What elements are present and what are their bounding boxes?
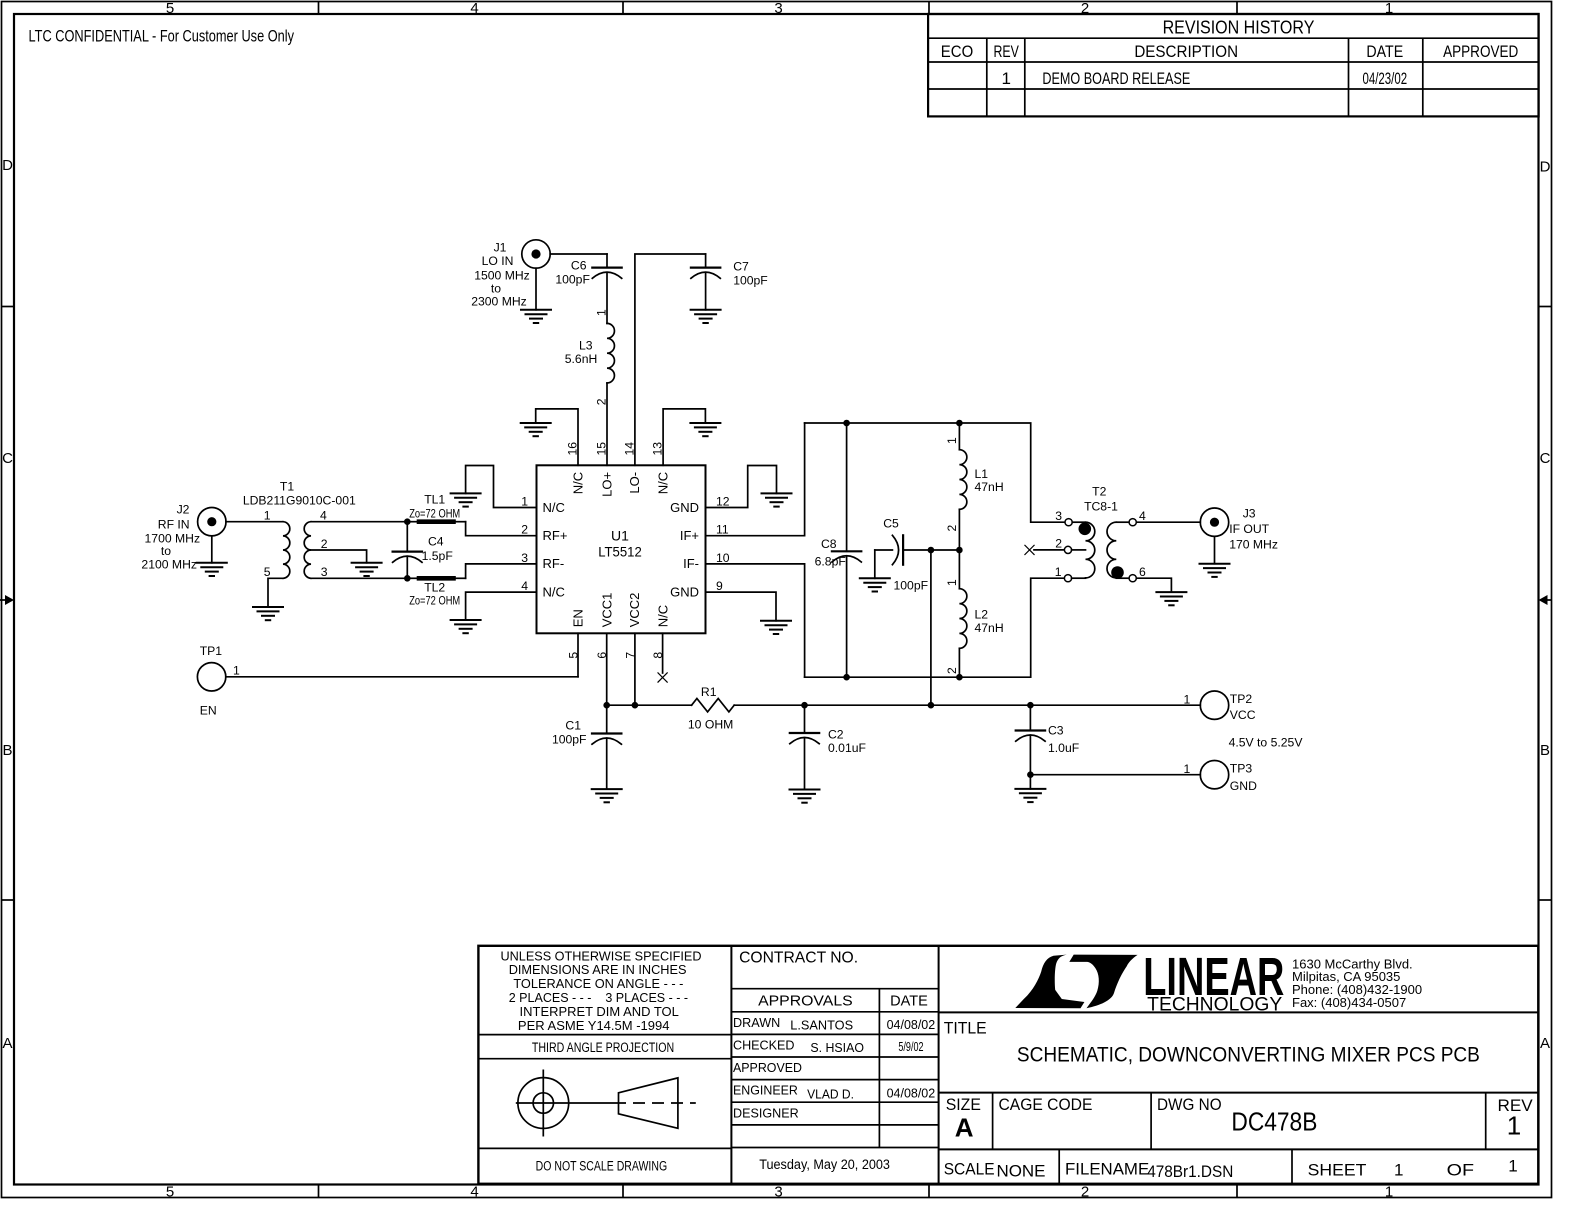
test point TP1 (197, 663, 225, 691)
svg-text:1: 1 (521, 495, 528, 509)
svg-text:0.01uF: 0.01uF (828, 741, 866, 755)
L1 value labels (975, 467, 1004, 494)
wire J1 stem to ground (535, 268, 537, 310)
node C8 top (843, 420, 850, 427)
svg-text:U1: U1 (611, 527, 629, 543)
svg-text:to: to (161, 544, 171, 558)
T2 phase dot top (1079, 523, 1092, 536)
svg-text:4.5V to 5.25V: 4.5V to 5.25V (1229, 736, 1304, 750)
svg-text:J1: J1 (494, 241, 507, 255)
transformer T1 primary winding (283, 522, 290, 579)
capacitor C3 (1016, 705, 1045, 789)
svg-text:1: 1 (595, 309, 609, 316)
svg-text:3: 3 (774, 1184, 782, 1201)
svg-text:1: 1 (1508, 1157, 1517, 1176)
svg-text:DIMENSIONS ARE IN INCHES: DIMENSIONS ARE IN INCHES (509, 962, 687, 977)
svg-text:2 PLACES - - - 3 PLACES - -: 2 PLACES - - - 3 PLACES - - - (509, 990, 688, 1005)
svg-text:2: 2 (945, 667, 959, 674)
svg-text:T2: T2 (1092, 484, 1106, 498)
svg-text:ECO: ECO (941, 42, 973, 61)
svg-text:L3: L3 (579, 338, 593, 352)
TP2 labels (1184, 692, 1256, 722)
svg-text:FILENAME: FILENAME (1065, 1160, 1149, 1179)
svg-text:RF-: RF- (543, 556, 565, 571)
wire TL2 to pin 3 step (466, 564, 537, 578)
svg-text:04/08/02: 04/08/02 (887, 1018, 936, 1032)
svg-text:6.8pF: 6.8pF (815, 555, 846, 569)
pin 7 stub (634, 633, 636, 705)
ground pin 12 (762, 493, 792, 506)
svg-text:C: C (1540, 450, 1551, 467)
pin 13 ground wire (663, 409, 705, 465)
svg-text:1.5pF: 1.5pF (422, 549, 453, 563)
svg-text:6: 6 (1139, 565, 1146, 579)
svg-text:GND: GND (670, 584, 699, 599)
wire IF+ pin 11 riser (706, 423, 805, 536)
T1 pin 4 wire (311, 521, 407, 523)
capacitor C6 (592, 254, 621, 278)
svg-text:IF-: IF- (683, 556, 699, 571)
svg-text:1.0uF: 1.0uF (1048, 741, 1079, 755)
U1 left pin numbers (521, 495, 528, 594)
connector J1 LO IN (522, 240, 550, 268)
ground T2 pin 6 (1156, 592, 1186, 605)
C7 value labels (733, 259, 768, 287)
svg-text:APPROVED: APPROVED (1443, 42, 1518, 61)
ground C5 (860, 578, 890, 591)
svg-text:2300 MHz: 2300 MHz (471, 295, 527, 309)
capacitor C8 (832, 423, 861, 677)
svg-text:RF IN: RF IN (158, 518, 190, 532)
C6 value labels (555, 258, 590, 286)
svg-text:A: A (2, 1035, 12, 1052)
capacitor C5 (875, 535, 931, 564)
T2 phase dot bottom (1111, 566, 1124, 579)
ground pin 9 (761, 621, 791, 634)
T1 pin labels (264, 509, 328, 580)
svg-text:A: A (1540, 1035, 1550, 1052)
svg-text:LO+: LO+ (599, 472, 614, 497)
node C5 branch (928, 547, 935, 554)
svg-text:5/9/02: 5/9/02 (898, 1040, 923, 1054)
svg-text:100pF: 100pF (552, 732, 587, 746)
wire LO- pin 14 riser (635, 254, 706, 465)
pin 12 ground wire (706, 466, 777, 508)
SCHEMATIC END (478, 946, 1538, 1184)
svg-text:11: 11 (716, 523, 729, 537)
svg-text:CAGE CODE: CAGE CODE (999, 1095, 1093, 1114)
transformer T1 secondary winding (304, 522, 311, 579)
svg-text:1: 1 (1385, 1184, 1393, 1201)
TP3 labels (1184, 762, 1258, 794)
svg-text:VCC: VCC (1230, 708, 1256, 722)
svg-text:T1: T1 (280, 480, 294, 494)
svg-text:4: 4 (470, 1184, 478, 1201)
T1 labels (243, 480, 356, 508)
svg-text:N/C: N/C (543, 584, 565, 599)
C8 value labels (815, 537, 846, 569)
C3 value labels (1048, 724, 1079, 755)
svg-text:ENGINEER: ENGINEER (733, 1084, 798, 1098)
svg-text:THIRD ANGLE PROJECTION: THIRD ANGLE PROJECTION (532, 1040, 674, 1055)
svg-text:DRAWN: DRAWN (733, 1016, 780, 1030)
C5 ground leg (874, 550, 876, 578)
svg-text:4: 4 (1139, 509, 1146, 523)
svg-text:UNLESS OTHERWISE SPECIFIED: UNLESS OTHERWISE SPECIFIED (501, 948, 702, 963)
svg-text:170 MHz: 170 MHz (1229, 537, 1278, 551)
svg-text:1: 1 (1055, 565, 1062, 579)
pin 5 stub (577, 633, 579, 677)
T1 pin 2 wire to ground (311, 550, 367, 563)
ground pin 13 (690, 423, 720, 436)
wire TL1 to pin 2 step (466, 522, 537, 536)
svg-text:RF+: RF+ (543, 528, 568, 543)
J1 labels (471, 241, 530, 309)
svg-text:LTC CONFIDENTIAL - For Custome: LTC CONFIDENTIAL - For Customer Use Only (29, 27, 295, 46)
svg-text:3: 3 (1055, 509, 1062, 523)
svg-text:N/C: N/C (656, 605, 671, 627)
svg-text:2: 2 (521, 523, 528, 537)
svg-text:APPROVED: APPROVED (733, 1061, 802, 1075)
ground C2 (790, 790, 820, 803)
resistor R1 (692, 699, 735, 712)
svg-text:14: 14 (622, 442, 636, 456)
svg-text:B: B (1540, 742, 1550, 759)
svg-text:S. HSIAO: S. HSIAO (810, 1041, 864, 1055)
wire TP3 GND (1030, 774, 1200, 776)
svg-text:C6: C6 (571, 258, 587, 272)
svg-text:TL2: TL2 (424, 580, 445, 594)
transformer T2 right winding (1107, 522, 1116, 578)
svg-text:SCHEMATIC, DOWNCONVERTING MIXE: SCHEMATIC, DOWNCONVERTING MIXER PCS PCB (1017, 1044, 1480, 1067)
C4 value labels (422, 535, 453, 564)
svg-text:1: 1 (1394, 1160, 1403, 1179)
svg-text:N/C: N/C (543, 500, 565, 515)
node L1 L2 mid (956, 547, 963, 554)
C5 value labels (883, 517, 928, 593)
transformer T2 left winding (1086, 522, 1095, 578)
wire C5 to L junction (931, 549, 960, 551)
svg-text:IF OUT: IF OUT (1229, 522, 1269, 536)
svg-text:OF: OF (1447, 1160, 1474, 1179)
svg-text:PER ASME Y14.5M -1994: PER ASME Y14.5M -1994 (518, 1018, 670, 1033)
node pin 6 C1 (603, 702, 610, 709)
J3 stem to ground (1214, 536, 1216, 563)
svg-text:1: 1 (1001, 69, 1010, 88)
svg-text:4: 4 (470, 0, 478, 17)
U1 right pin names (670, 500, 699, 600)
svg-text:DWG NO: DWG NO (1157, 1095, 1222, 1114)
svg-text:C4: C4 (428, 535, 444, 549)
svg-text:5: 5 (166, 1184, 174, 1201)
U1 left pin names (543, 500, 568, 600)
svg-text:J3: J3 (1243, 507, 1256, 521)
transmission line TL2 (407, 577, 465, 579)
capacitor C4 (393, 522, 422, 579)
svg-text:GND: GND (1230, 779, 1257, 793)
svg-text:4: 4 (320, 509, 327, 523)
svg-text:TC8-1: TC8-1 (1084, 500, 1118, 514)
svg-text:Tuesday, May 20, 2003: Tuesday, May 20, 2003 (759, 1157, 890, 1172)
ground T1 pin 2 (352, 563, 382, 576)
svg-text:2100 MHz: 2100 MHz (141, 558, 197, 572)
svg-text:DESCRIPTION: DESCRIPTION (1134, 42, 1238, 61)
ground pin 1 (451, 493, 481, 506)
C1 value labels (552, 719, 587, 747)
ground J3 (1200, 564, 1230, 577)
svg-text:1700 MHz: 1700 MHz (145, 532, 201, 546)
svg-text:Zo=72 OHM: Zo=72 OHM (409, 509, 460, 521)
svg-text:100pF: 100pF (555, 273, 590, 287)
node L2 bottom (956, 674, 963, 681)
VCC rail left segment (607, 704, 692, 706)
svg-text:VLAD D.: VLAD D. (807, 1088, 854, 1102)
test point TP3 GND (1200, 761, 1228, 789)
svg-text:C7: C7 (733, 259, 749, 273)
svg-text:1: 1 (1507, 1111, 1521, 1141)
node C3 TP3 (1027, 771, 1034, 778)
svg-text:3: 3 (774, 0, 782, 17)
svg-text:D: D (2, 157, 13, 174)
svg-text:R1: R1 (701, 685, 717, 699)
svg-text:TP3: TP3 (1230, 762, 1253, 776)
svg-text:to: to (491, 282, 501, 296)
T2 pin 3 (1055, 509, 1085, 526)
T2 pin 4 (1116, 509, 1200, 526)
ground T1 pin 5 (253, 607, 283, 620)
svg-text:47nH: 47nH (975, 480, 1004, 494)
svg-text:C3: C3 (1048, 724, 1064, 738)
svg-text:12: 12 (716, 495, 730, 509)
svg-text:L.SANTOS: L.SANTOS (790, 1018, 853, 1032)
svg-text:EN: EN (570, 609, 585, 627)
svg-text:10: 10 (716, 551, 730, 565)
svg-text:C2: C2 (828, 728, 844, 742)
wire J2 stem to ground (211, 536, 213, 563)
svg-text:15: 15 (595, 442, 609, 456)
svg-text:J2: J2 (177, 503, 190, 517)
T2 labels (1084, 484, 1118, 513)
TP1 labels (200, 644, 240, 718)
svg-text:VCC1: VCC1 (599, 593, 614, 628)
svg-text:DO NOT SCALE DRAWING: DO NOT SCALE DRAWING (536, 1159, 668, 1174)
svg-text:04/08/02: 04/08/02 (887, 1087, 936, 1101)
U1 top pin numbers (566, 442, 665, 456)
svg-text:A: A (955, 1113, 974, 1143)
svg-text:9: 9 (716, 579, 723, 593)
wire IF top rail (805, 423, 1065, 522)
pin 16 ground wire (536, 409, 578, 465)
svg-text:CHECKED: CHECKED (733, 1039, 795, 1053)
svg-text:SIZE: SIZE (946, 1095, 981, 1114)
svg-text:1500 MHz: 1500 MHz (474, 269, 530, 283)
svg-text:47nH: 47nH (975, 621, 1004, 635)
svg-text:D: D (1540, 159, 1551, 176)
svg-text:CONTRACT NO.: CONTRACT NO. (739, 950, 858, 967)
capacitor C2 (790, 705, 819, 789)
transmission line TL1 (407, 521, 465, 523)
ground under J1 (521, 310, 551, 323)
T2 pin 6 to ground (1116, 565, 1171, 592)
capacitor C1 (592, 705, 621, 789)
address block (1292, 956, 1422, 1010)
connector J2 RF IN (198, 508, 226, 536)
node TL2 junction (404, 575, 411, 582)
svg-text:4: 4 (521, 579, 528, 593)
node L1 top (956, 420, 963, 427)
svg-text:VCC2: VCC2 (627, 593, 642, 628)
third angle projection symbol (516, 1070, 696, 1137)
L2 value labels (975, 608, 1004, 635)
wire C6 to L3 (606, 272, 608, 323)
svg-text:100pF: 100pF (894, 579, 929, 593)
ground pin 4 (451, 620, 481, 633)
VCC rail right segment (734, 704, 1200, 706)
svg-text:C: C (2, 450, 13, 467)
ground under J2 (197, 563, 227, 576)
svg-text:TL1: TL1 (424, 492, 445, 506)
svg-text:16: 16 (566, 442, 580, 456)
svg-text:DATE: DATE (890, 993, 928, 1009)
pin 4 ground wire (466, 592, 537, 620)
wire C5 branch to VCC rail (930, 550, 932, 705)
wire J2 to T1 pin 1 (226, 521, 283, 523)
svg-text:LT5512: LT5512 (598, 544, 642, 560)
node C5 VCC junction (928, 702, 935, 709)
svg-text:EN: EN (200, 703, 217, 717)
svg-text:DC478B: DC478B (1231, 1107, 1317, 1137)
node C2 (801, 702, 808, 709)
svg-text:1: 1 (945, 437, 959, 444)
svg-text:C8: C8 (821, 537, 837, 551)
C2 value labels (828, 728, 866, 755)
svg-text:1: 1 (945, 579, 959, 586)
svg-text:5.6nH: 5.6nH (565, 352, 598, 366)
svg-text:GND: GND (670, 500, 699, 515)
U1 reference labels (598, 527, 642, 559)
svg-text:2: 2 (1081, 1184, 1089, 1201)
svg-text:L1: L1 (975, 467, 989, 481)
svg-text:APPROVALS: APPROVALS (758, 993, 853, 1009)
test point TP2 VCC (1200, 691, 1228, 719)
svg-text:5: 5 (166, 0, 174, 17)
svg-text:DATE: DATE (1366, 42, 1403, 61)
svg-text:TP1: TP1 (200, 644, 223, 658)
svg-text:TITLE: TITLE (944, 1018, 987, 1037)
svg-text:LDB211G9010C-001: LDB211G9010C-001 (243, 494, 356, 508)
svg-text:B: B (2, 742, 12, 759)
svg-text:IF+: IF+ (680, 528, 699, 543)
node C3 top (1027, 702, 1034, 709)
T1 pin 5 wire to ground (268, 578, 283, 607)
pin 1 ground wire (466, 466, 537, 508)
svg-text:10 OHM: 10 OHM (688, 717, 733, 731)
svg-text:SHEET: SHEET (1308, 1160, 1367, 1179)
node TL1 junction (404, 518, 411, 525)
svg-text:LO-: LO- (627, 472, 642, 494)
svg-text:DEMO BOARD RELEASE: DEMO BOARD RELEASE (1042, 69, 1190, 88)
svg-text:2: 2 (1055, 537, 1062, 551)
U1 right pin numbers (716, 495, 730, 594)
wire IF bottom rail (805, 578, 1065, 677)
svg-text:LO IN: LO IN (482, 254, 514, 268)
inductor L2 (959, 550, 966, 677)
ground under C7 (691, 310, 721, 323)
svg-text:2: 2 (945, 525, 959, 532)
svg-text:NONE: NONE (997, 1161, 1046, 1180)
J3 labels (1229, 507, 1278, 552)
wire IF- pin 10 dropper (706, 564, 805, 677)
svg-text:TP2: TP2 (1230, 692, 1253, 706)
REVISION HISTORY TABLE (928, 14, 1539, 116)
U1 bottom pin numbers (567, 652, 666, 659)
node pin 7 (632, 702, 639, 709)
svg-text:13: 13 (651, 442, 665, 456)
pin 6 stub (606, 633, 608, 705)
TL2 labels (409, 580, 460, 607)
svg-text:N/C: N/C (656, 472, 671, 494)
T2 pin 2 no-connect (1025, 537, 1086, 555)
connector J3 IF OUT (1200, 508, 1228, 536)
svg-text:1: 1 (233, 664, 240, 678)
U1 top pin names (570, 472, 670, 497)
R1 labels (688, 685, 733, 731)
op-amp U1 LT5512 body (537, 465, 706, 633)
T1 pin 3 wire (311, 577, 407, 579)
node C8 bottom (843, 674, 850, 681)
ground C3 (1015, 789, 1045, 802)
svg-text:100pF: 100pF (733, 274, 768, 288)
svg-text:C1: C1 (565, 719, 581, 733)
wire J1 to C6 (550, 253, 607, 255)
svg-text:3: 3 (321, 565, 328, 579)
inductor L3 (607, 323, 614, 383)
inductor L1 (959, 423, 966, 550)
svg-text:N/C: N/C (570, 472, 585, 494)
wire L3 to pin 15 (606, 383, 608, 465)
svg-text:C5: C5 (883, 517, 899, 531)
svg-text:1: 1 (1184, 762, 1191, 776)
ground C1 (592, 789, 622, 802)
pin 8 stub no-connect (658, 633, 667, 682)
svg-text:Zo=72 OHM: Zo=72 OHM (409, 596, 460, 608)
svg-text:04/23/02: 04/23/02 (1363, 69, 1408, 88)
svg-text:478Br1.DSN: 478Br1.DSN (1147, 1162, 1233, 1181)
TL1 labels (409, 492, 460, 520)
svg-text:TECHNOLOGY: TECHNOLOGY (1147, 994, 1282, 1015)
svg-text:REV: REV (994, 42, 1020, 61)
svg-text:SCALE: SCALE (944, 1160, 995, 1179)
T2 pin 1 (1055, 565, 1086, 582)
svg-text:5: 5 (264, 565, 271, 579)
L3 labels (565, 338, 598, 366)
svg-text:DESIGNER: DESIGNER (733, 1106, 799, 1120)
svg-text:TOLERANCE ON ANGLE - - -: TOLERANCE ON ANGLE - - - (513, 976, 683, 991)
svg-text:1: 1 (1184, 693, 1191, 707)
svg-text:1: 1 (264, 509, 271, 523)
U1 bottom pin names (570, 593, 670, 628)
svg-text:3: 3 (521, 551, 528, 565)
svg-text:INTERPRET DIM AND TOL: INTERPRET DIM AND TOL (520, 1004, 679, 1019)
J2 labels (141, 503, 200, 572)
svg-text:2: 2 (321, 537, 328, 551)
pin 9 ground wire (706, 592, 777, 621)
svg-text:REVISION HISTORY: REVISION HISTORY (1163, 16, 1315, 37)
ground pin 16 (521, 423, 551, 436)
svg-text:Fax: (408)434-0507: Fax: (408)434-0507 (1292, 995, 1406, 1010)
svg-text:L2: L2 (975, 608, 989, 622)
capacitor C7 (691, 254, 720, 310)
